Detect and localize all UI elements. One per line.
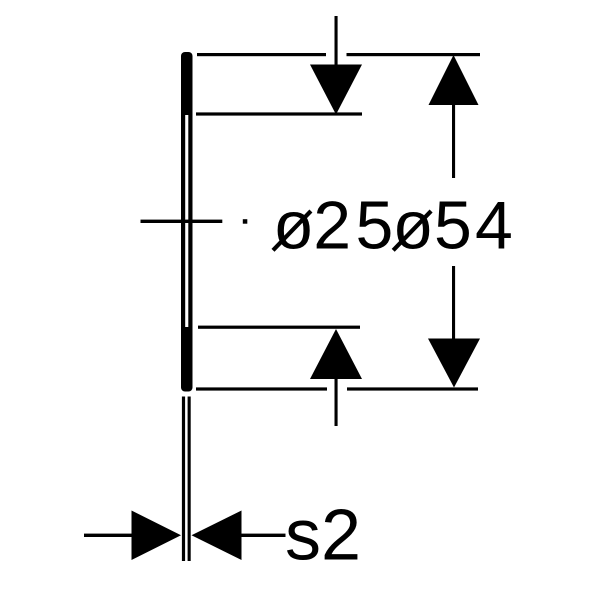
dimension extension line: ø54 bottom edge (left segment)	[196, 387, 327, 390]
extension line: lower projection double line right	[188, 397, 191, 562]
s2 dimension arrowhead pointing left	[192, 511, 242, 561]
center line: dash	[141, 220, 223, 223]
dimension extension line: ø54 top edge (left segment)	[197, 53, 326, 56]
label text: ø25ø54 (diameter labels)	[275, 188, 513, 264]
center line: dot	[243, 219, 248, 224]
ø54 dimension arrow bottom: tail	[452, 266, 455, 339]
dimension extension line: ø54 bottom edge (right segment)	[347, 387, 478, 390]
s2 dimension line: right segment	[240, 534, 286, 537]
svg-text:4: 4	[475, 188, 513, 264]
ø25 dimension arrow bottom: tail	[335, 378, 338, 426]
ø54 dimension arrow bottom: down arrowhead	[428, 339, 480, 388]
ø25 dimension arrow top: down arrowhead	[310, 65, 362, 115]
diameter symbol slash 2	[393, 211, 431, 250]
svg-text:o: o	[275, 188, 313, 264]
svg-text:s2: s2	[285, 496, 361, 576]
part: disc seal side view (outer body)	[181, 52, 193, 392]
extension line: lower projection double line left	[182, 397, 185, 562]
dimension extension line: ø54 top edge (right segment)	[347, 53, 481, 56]
ø25 dimension arrow top: tail	[335, 16, 338, 65]
ø54 dimension arrow top: up arrowhead	[429, 55, 479, 105]
svg-text:5: 5	[434, 188, 472, 264]
diameter symbol slash 1	[273, 211, 311, 250]
dimension extension line: ø25 bottom edge	[198, 326, 360, 329]
dimension extension line: ø25 top edge	[196, 112, 362, 115]
svg-text:2: 2	[313, 188, 351, 264]
s2 dimension line: left segment	[84, 534, 132, 537]
ø54 dimension arrow top: tail	[452, 104, 455, 178]
svg-text:o: o	[394, 188, 432, 264]
ø25 dimension arrow bottom: up arrowhead	[310, 329, 362, 379]
s2 dimension arrowhead pointing right	[132, 511, 182, 561]
part: inner hole region (hollow middle of disc)	[185, 115, 188, 327]
svg-text:5: 5	[356, 188, 394, 264]
